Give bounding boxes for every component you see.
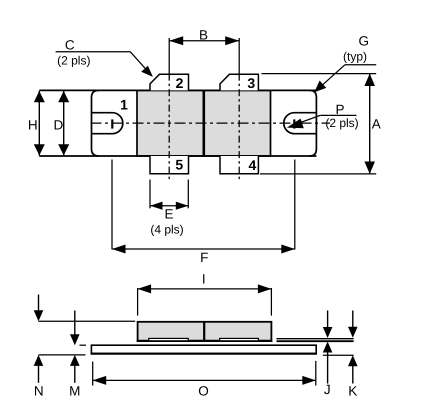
svg-text:C: C	[65, 37, 75, 52]
dimension B	[169, 28, 239, 74]
svg-text:N: N	[34, 384, 44, 399]
svg-text:(typ): (typ)	[343, 50, 367, 64]
flange bottom edge	[39, 155, 316, 157]
lead 3 (top right, chamfered)	[220, 74, 258, 90]
dimension I	[138, 271, 272, 315]
flange (side view)	[91, 345, 317, 354]
label G (typ) with leader	[314, 34, 376, 93]
svg-text:3: 3	[247, 75, 255, 91]
dimension K	[348, 311, 358, 399]
label C (2 pls) with leader	[56, 37, 153, 77]
svg-text:P: P	[335, 102, 344, 117]
dimension J	[323, 311, 333, 397]
svg-text:4: 4	[249, 157, 257, 173]
svg-text:E: E	[164, 206, 173, 221]
right slot center tick	[293, 119, 295, 128]
svg-text:1: 1	[120, 96, 128, 112]
svg-text:(2 pls): (2 pls)	[325, 116, 358, 130]
svg-text:H: H	[28, 117, 38, 132]
dimension N	[34, 295, 136, 399]
cap divider (side view)	[203, 322, 205, 341]
lead 2 (top left, chamfered)	[150, 74, 189, 90]
dimension M	[69, 311, 86, 399]
svg-text:D: D	[54, 117, 64, 132]
dimension F	[112, 160, 295, 266]
centerline leads 2-5	[168, 74, 170, 182]
horizontal centerline	[91, 122, 331, 124]
lead 3/4 edge (side view strip right)	[220, 338, 259, 340]
dimension A	[260, 74, 381, 174]
svg-text:5: 5	[175, 156, 183, 172]
svg-text:G: G	[359, 34, 370, 49]
flange bottom extension (right)	[323, 354, 354, 356]
svg-text:A: A	[372, 117, 381, 132]
svg-text:M: M	[69, 384, 80, 399]
centerline leads 3-4	[238, 74, 240, 182]
svg-text:(2 pls): (2 pls)	[57, 54, 90, 68]
cap (side view)	[137, 322, 273, 341]
dimension H	[28, 91, 45, 156]
svg-text:K: K	[348, 383, 357, 398]
lead 2/5 edge (side view strip left)	[149, 338, 188, 340]
lead overhang (right)	[277, 339, 354, 342]
svg-text:B: B	[199, 28, 208, 43]
right flange end (rounded)	[310, 90, 317, 156]
svg-text:F: F	[200, 250, 208, 265]
svg-text:I: I	[202, 271, 206, 286]
svg-text:J: J	[324, 382, 331, 397]
svg-text:(4 pls): (4 pls)	[150, 223, 183, 237]
label P (2 pls) with leader	[287, 102, 359, 130]
flange top edge	[39, 89, 316, 91]
dimension O	[93, 361, 316, 398]
left flange end (rounded)	[92, 90, 99, 156]
left slot center tick	[111, 119, 113, 128]
body center divider	[203, 90, 206, 156]
dimension D	[54, 91, 70, 156]
dimension E	[150, 180, 188, 237]
left mounting slot	[92, 113, 123, 134]
lead 4 (bottom right)	[220, 156, 258, 174]
svg-text:O: O	[198, 383, 209, 398]
svg-text:2: 2	[176, 75, 184, 91]
lead 5 (bottom left)	[150, 156, 189, 174]
right mounting slot	[284, 113, 317, 134]
body (ceramic cap, top view)	[137, 90, 271, 156]
